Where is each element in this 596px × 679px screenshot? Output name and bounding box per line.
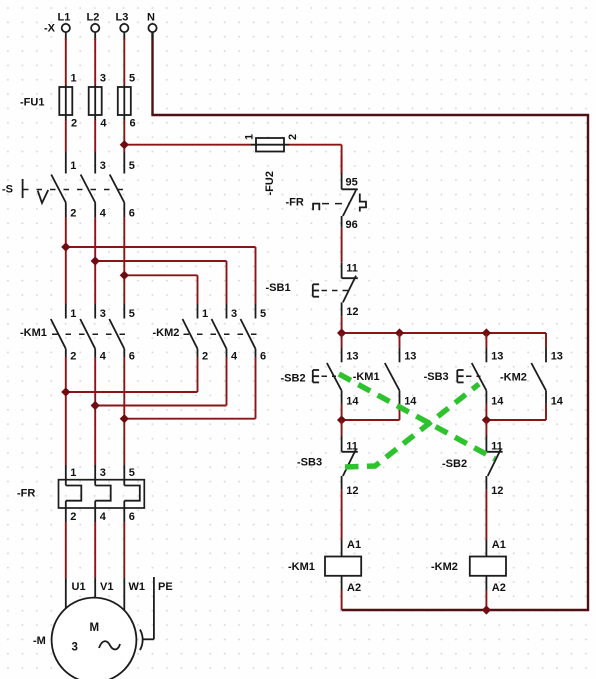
svg-text:5: 5 <box>129 73 135 85</box>
svg-text:5: 5 <box>129 160 135 172</box>
svg-text:M: M <box>90 622 100 634</box>
svg-text:U1: U1 <box>72 581 86 593</box>
svg-text:13: 13 <box>404 351 416 363</box>
svg-text:-KM2: -KM2 <box>500 372 527 384</box>
svg-text:13: 13 <box>491 351 503 363</box>
svg-text:4: 4 <box>100 511 107 523</box>
svg-text:4: 4 <box>231 351 238 363</box>
svg-text:6: 6 <box>130 118 136 130</box>
svg-text:L2: L2 <box>87 12 100 24</box>
svg-text:6: 6 <box>260 351 266 363</box>
svg-text:3: 3 <box>100 308 106 320</box>
svg-text:11: 11 <box>346 441 358 453</box>
svg-text:12: 12 <box>491 485 503 497</box>
svg-text:V1: V1 <box>100 581 113 593</box>
svg-text:-KM1: -KM1 <box>353 371 380 383</box>
svg-text:-SB3: -SB3 <box>297 457 322 469</box>
svg-text:6: 6 <box>129 208 135 220</box>
svg-text:A1: A1 <box>492 539 506 551</box>
svg-text:1: 1 <box>70 308 76 320</box>
svg-text:PE: PE <box>158 581 173 593</box>
svg-text:2: 2 <box>70 351 76 363</box>
svg-text:95: 95 <box>346 177 358 189</box>
svg-text:-KM1: -KM1 <box>20 327 47 339</box>
svg-text:5: 5 <box>129 308 135 320</box>
svg-text:13: 13 <box>346 351 358 363</box>
svg-text:A1: A1 <box>347 539 361 551</box>
svg-text:1: 1 <box>70 467 76 479</box>
svg-text:L3: L3 <box>116 12 129 24</box>
svg-text:-FR: -FR <box>17 488 35 500</box>
svg-text:3: 3 <box>72 642 78 654</box>
svg-text:2: 2 <box>287 134 299 140</box>
svg-text:1: 1 <box>244 134 256 140</box>
svg-text:-FR: -FR <box>286 197 304 209</box>
svg-text:-S: -S <box>2 184 13 196</box>
svg-text:3: 3 <box>100 160 106 172</box>
svg-text:2: 2 <box>70 208 76 220</box>
svg-text:14: 14 <box>346 396 359 408</box>
svg-text:-X: -X <box>44 23 56 35</box>
svg-text:4: 4 <box>100 118 107 130</box>
svg-text:-SB2: -SB2 <box>442 458 467 470</box>
svg-text:2: 2 <box>202 351 208 363</box>
svg-text:6: 6 <box>129 511 135 523</box>
svg-text:3: 3 <box>100 467 106 479</box>
svg-text:1: 1 <box>70 160 76 172</box>
svg-text:-KM2: -KM2 <box>431 561 458 573</box>
svg-text:-SB3: -SB3 <box>424 371 449 383</box>
svg-text:2: 2 <box>71 118 77 130</box>
svg-text:-SB1: -SB1 <box>266 282 291 294</box>
svg-text:96: 96 <box>346 219 358 231</box>
svg-text:3: 3 <box>231 308 237 320</box>
svg-text:W1: W1 <box>129 581 146 593</box>
svg-text:4: 4 <box>100 208 107 220</box>
svg-text:-FU2: -FU2 <box>264 171 276 195</box>
svg-text:14: 14 <box>491 396 504 408</box>
svg-text:5: 5 <box>260 308 266 320</box>
svg-text:2: 2 <box>70 511 76 523</box>
svg-text:14: 14 <box>404 396 417 408</box>
svg-text:L1: L1 <box>58 12 71 24</box>
svg-text:6: 6 <box>129 351 135 363</box>
svg-text:1: 1 <box>202 308 208 320</box>
svg-text:12: 12 <box>346 306 358 318</box>
svg-text:12: 12 <box>346 485 358 497</box>
svg-text:-KM2: -KM2 <box>153 327 180 339</box>
svg-text:4: 4 <box>100 351 107 363</box>
svg-text:3: 3 <box>100 73 106 85</box>
svg-text:1: 1 <box>71 73 77 85</box>
svg-text:-M: -M <box>33 635 46 647</box>
svg-text:5: 5 <box>129 467 135 479</box>
svg-text:A2: A2 <box>347 582 361 594</box>
svg-text:11: 11 <box>491 441 503 453</box>
svg-text:-FU1: -FU1 <box>20 97 44 109</box>
svg-text:-SB2: -SB2 <box>281 373 306 385</box>
svg-text:A2: A2 <box>492 582 506 594</box>
svg-text:14: 14 <box>551 396 564 408</box>
svg-text:13: 13 <box>551 351 563 363</box>
svg-text:N: N <box>147 12 155 24</box>
svg-text:11: 11 <box>346 263 358 275</box>
svg-text:-KM1: -KM1 <box>288 561 315 573</box>
